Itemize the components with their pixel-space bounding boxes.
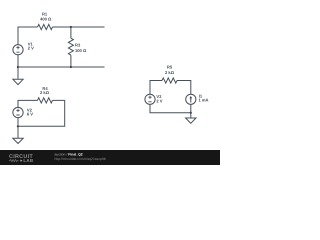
wire V2 top to R4: [18, 100, 38, 107]
svg-text:2 kΩ: 2 kΩ: [40, 90, 50, 95]
wire bottom rail circuit1: [18, 66, 105, 68]
svg-text:LAB: LAB: [23, 158, 33, 163]
wire R1 right to open end: [53, 26, 105, 28]
banner: [0, 150, 220, 165]
svg-text:R5: R5: [167, 65, 173, 70]
node junction I1 bottom: [190, 112, 192, 114]
ground (circuit3): [186, 118, 196, 123]
node junction bottom of R3: [70, 66, 72, 68]
resistor R3: [68, 38, 73, 55]
svg-text:2 V: 2 V: [28, 46, 34, 51]
current source I1: [186, 94, 196, 104]
svg-text:auction / Final_Q2: auction / Final_Q2: [55, 153, 83, 157]
wire V3 bottom to rail: [150, 104, 191, 112]
svg-text:6 V: 6 V: [27, 112, 33, 117]
voltage source V2: [13, 107, 23, 117]
node junction top of R3: [70, 26, 72, 28]
CircuitLab logo zigzag: [9, 160, 19, 162]
wire R5 right to I1: [177, 81, 191, 95]
svg-text:R3: R3: [75, 42, 81, 47]
wire R3 top lead: [70, 27, 72, 38]
svg-text:http://circuitlab.com/c/aq21ss: http://circuitlab.com/c/aq21ssep9b: [55, 157, 106, 161]
resistor R4: [38, 98, 53, 103]
svg-text:2 kΩ: 2 kΩ: [165, 70, 175, 75]
wire R4 right side loop: [18, 100, 65, 126]
svg-text:2 V: 2 V: [156, 98, 162, 103]
node junction V1 bottom: [17, 66, 19, 68]
CircuitLab logo arrow: [21, 160, 23, 162]
svg-text:400 Ω: 400 Ω: [40, 16, 52, 21]
wire R3 bottom lead: [70, 55, 72, 67]
svg-text:100 Ω: 100 Ω: [75, 48, 87, 53]
ground (circuit2): [13, 138, 23, 143]
resistor R5: [162, 78, 177, 83]
svg-text:1 mA: 1 mA: [199, 97, 209, 102]
wire V2 bottom to ground: [17, 118, 19, 138]
voltage source V3: [145, 94, 155, 104]
ground (circuit1): [13, 79, 23, 84]
resistor R1: [38, 24, 53, 29]
node junction V2 bottom: [17, 125, 19, 127]
wire V1 top to R1: [18, 27, 38, 45]
voltage source V1: [13, 45, 23, 55]
wire I1 bottom to rail: [190, 104, 192, 117]
wire V1 bottom to rail and ground: [17, 55, 19, 79]
wire V3 top to R5: [150, 81, 162, 95]
